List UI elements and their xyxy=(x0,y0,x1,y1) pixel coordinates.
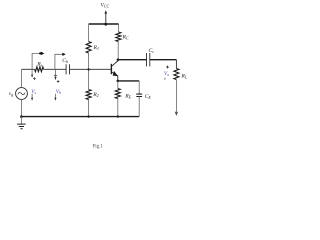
svg-text:RL: RL xyxy=(180,74,187,80)
svg-text:Cc: Cc xyxy=(149,48,155,54)
svg-text:R1: R1 xyxy=(93,45,99,51)
svg-text:R2: R2 xyxy=(92,92,98,98)
svg-text:Rs: Rs xyxy=(36,61,42,67)
svg-text:Fig.1: Fig.1 xyxy=(93,145,104,150)
svg-text:vg: vg xyxy=(9,91,13,97)
svg-text:RE: RE xyxy=(124,94,131,100)
svg-text:RC: RC xyxy=(122,35,129,41)
svg-text:VCC: VCC xyxy=(101,2,110,8)
svg-text:CE: CE xyxy=(145,94,152,100)
svg-text:Cb: Cb xyxy=(62,58,68,64)
